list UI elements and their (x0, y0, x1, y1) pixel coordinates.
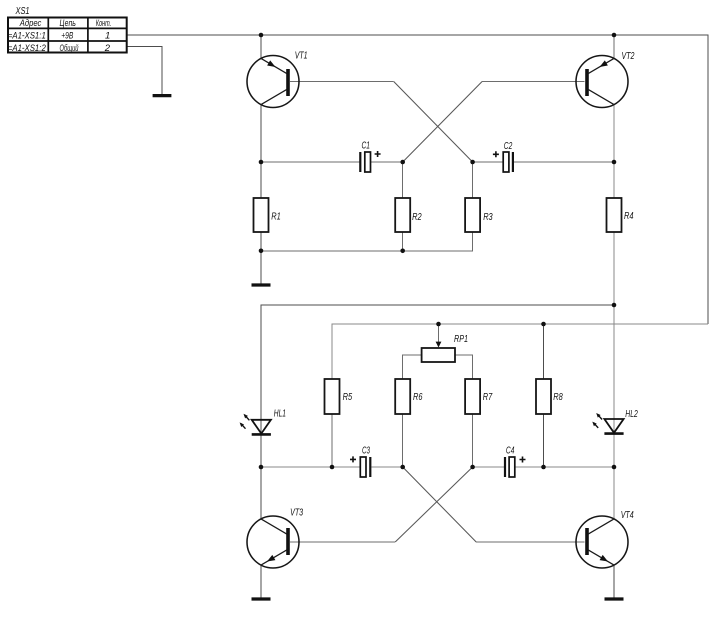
svg-text:VT4: VT4 (621, 510, 634, 521)
svg-text:R3: R3 (483, 212, 493, 223)
svg-text:HL2: HL2 (625, 409, 638, 420)
svg-text:C3: C3 (362, 446, 370, 457)
svg-text:2: 2 (104, 43, 111, 54)
svg-text:R7: R7 (483, 392, 493, 403)
svg-text:=A1-XS1:1: =A1-XS1:1 (8, 30, 46, 41)
svg-text:Конт.: Конт. (96, 18, 112, 29)
svg-text:C1: C1 (362, 141, 371, 152)
svg-text:RP1: RP1 (454, 334, 468, 345)
svg-text:Цепь: Цепь (60, 18, 76, 29)
svg-text:XS1: XS1 (15, 6, 30, 17)
svg-text:C4: C4 (506, 446, 515, 457)
svg-text:+9В: +9В (61, 30, 74, 41)
svg-text:Адрес: Адрес (19, 18, 42, 29)
svg-text:VT1: VT1 (295, 51, 308, 62)
svg-text:R2: R2 (412, 212, 422, 223)
svg-text:=A1-XS1:2: =A1-XS1:2 (8, 43, 47, 54)
svg-text:R6: R6 (413, 392, 423, 403)
svg-text:R1: R1 (271, 212, 281, 223)
svg-text:Общий: Общий (60, 43, 79, 54)
svg-text:R5: R5 (343, 392, 353, 403)
svg-text:C2: C2 (504, 141, 513, 152)
svg-text:R8: R8 (553, 392, 563, 403)
svg-text:R4: R4 (624, 211, 634, 222)
svg-text:VT2: VT2 (622, 51, 635, 62)
svg-text:1: 1 (105, 30, 110, 41)
svg-text:HL1: HL1 (274, 409, 286, 420)
svg-text:VT3: VT3 (290, 508, 303, 519)
